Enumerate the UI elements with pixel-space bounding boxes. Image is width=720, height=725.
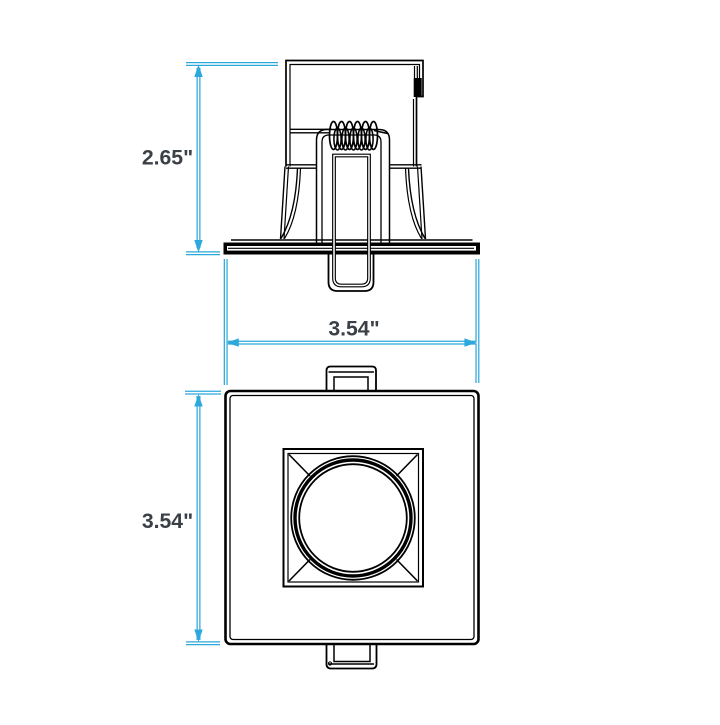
gimbal outer circle [291, 456, 415, 580]
dim 3.54 height arrow up [194, 394, 202, 407]
housing box inner line [290, 65, 420, 167]
dim 3.54 width left extension line [224, 259, 228, 385]
dim 2.65 vertical line [197, 68, 201, 248]
gimbal inner circle [299, 464, 407, 572]
cone right curve (double) [409, 169, 426, 239]
flange top surface line [231, 239, 473, 241]
corner bevel diagonals [289, 455, 310, 477]
bottom tab outer [327, 644, 377, 669]
top tab inner rect [334, 377, 368, 391]
spring clip slot (through flange) [334, 156, 369, 286]
cone left outer edge (double) [281, 167, 286, 240]
top tab mid line [329, 371, 375, 373]
bottom tab screw dot [328, 662, 331, 665]
trim square inner line [230, 396, 474, 640]
dim 3.54 width horizontal line [228, 341, 477, 345]
flange plate fill [224, 243, 481, 255]
dim 3.54 width arrow right [464, 338, 477, 346]
bottom tab inner rect [334, 644, 370, 662]
torsion spring coil rear strands [334, 128, 373, 150]
housing box bottom edge left segment (double) [286, 165, 317, 168]
housing box bottom edge right segment (double) [390, 165, 422, 168]
dim 3.54 height top extension tick [185, 391, 221, 395]
torsion spring coil [330, 122, 378, 150]
housing box corner fold wedge [415, 66, 418, 78]
svg-text:2.65": 2.65" [142, 147, 193, 170]
top tab outer [327, 367, 377, 392]
spring clip U below flange outer [329, 254, 374, 292]
dim 3.54 height arrow down [194, 630, 202, 643]
svg-text:3.54": 3.54" [142, 510, 193, 533]
inner square inner line [288, 454, 419, 583]
torsion spring left arm wire [291, 129, 333, 133]
svg-text:3.54": 3.54" [328, 318, 379, 341]
dim 3.54 width arrow left [226, 338, 239, 346]
dim 2.65 arrow down [194, 240, 202, 253]
flange inner white stripe [227, 246, 476, 251]
torsion spring right arm wire [374, 131, 388, 134]
spring bracket arch inner [322, 135, 381, 243]
dim 2.65 top extension tick [186, 62, 278, 66]
flange inner thin line [228, 247, 474, 249]
gimbal main circle [295, 460, 411, 576]
cone right outer edge (double) [421, 167, 426, 240]
spring bracket arch outer [317, 130, 390, 244]
housing box outer [286, 61, 423, 167]
trim square outer [226, 391, 479, 644]
bottom tab mid line [329, 663, 375, 665]
cone left curve (double) [281, 169, 298, 239]
dim 3.54 width right extension line [475, 259, 479, 383]
dim 3.54 height vertical line [197, 396, 201, 640]
inner square outer [284, 449, 424, 587]
dim 2.65 bottom extension tick [186, 251, 220, 255]
dim 2.65 arrow up [194, 65, 202, 78]
dim 3.54 height bottom extension tick [186, 641, 220, 645]
